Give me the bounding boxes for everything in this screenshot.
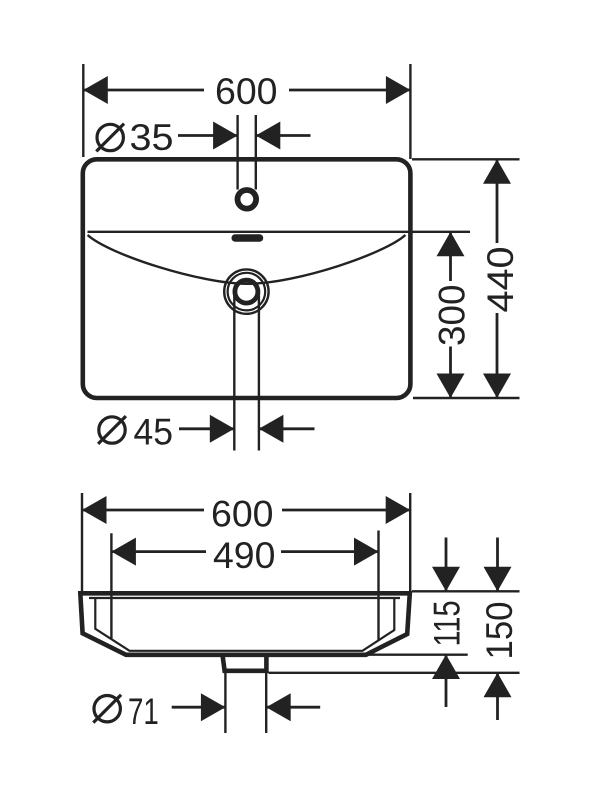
- front view: 600 dim line: [82, 509, 204, 512]
- front view: 150 bottom extension line: [269, 672, 520, 674]
- top view: faucet hole right extension line: [255, 115, 257, 190]
- svg-text:35: 35: [130, 117, 174, 158]
- front view: 600 left arrow: [82, 496, 107, 524]
- front view: 490 dim right extension line: [377, 531, 379, 641]
- svg-text:600: 600: [211, 494, 274, 535]
- front view: 150 top arrow pointing down: [484, 567, 512, 592]
- front view: 600 dim right extension line: [409, 493, 411, 591]
- top view: drain middle circle: [228, 273, 266, 311]
- top view: bottom extension line to the right: [413, 397, 520, 399]
- front view: 600 right arrow: [386, 496, 411, 524]
- top view: basin outer outline rounded rectangle: [83, 159, 411, 398]
- front view: 600 dim left extension line: [81, 493, 83, 592]
- front view: 150 dim line upper: [496, 538, 499, 592]
- top view: inner bowl curve: [88, 235, 406, 284]
- front view: 115 dim line lower: [445, 655, 448, 708]
- front view: dia71 dim line right segment: [266, 706, 320, 709]
- top view: drain outer circle: [224, 269, 268, 313]
- top view: dia35 right arrow pointing left: [256, 122, 280, 150]
- top view: dia45 left arrow: [210, 415, 235, 443]
- front view: dia71 dim line left segment: [172, 706, 226, 709]
- top view: diameter 35 label: [97, 124, 123, 150]
- top view: 600 dimension line: [83, 89, 204, 92]
- top view: overflow slot: [232, 234, 264, 241]
- svg-text:440: 440: [480, 247, 521, 313]
- front view: 490 dim left extension line: [110, 533, 112, 639]
- front view: 150 dim line lower: [496, 673, 499, 720]
- top view: 300 dim bottom arrow: [437, 374, 465, 399]
- svg-text:71: 71: [128, 691, 159, 732]
- front view: 490 right arrow: [354, 538, 379, 566]
- top view: faucet hole: [238, 190, 257, 209]
- top view: dia35 left arrow pointing right: [213, 122, 238, 150]
- top view: drain left extension line down to dia45 dim: [233, 292, 235, 451]
- top view: 600 dimension right arrow: [386, 76, 411, 104]
- svg-text:150: 150: [479, 602, 520, 660]
- svg-text:600: 600: [215, 71, 278, 112]
- front view: 115 dim line upper: [445, 538, 448, 592]
- top view: 600 dimension right extension line: [409, 64, 411, 159]
- top view: 300 dimension extension from rim handled above; 300 dim line: [449, 232, 452, 281]
- svg-text:300: 300: [432, 285, 473, 347]
- svg-text:45: 45: [134, 412, 174, 453]
- top view: 300 dim top arrow: [437, 232, 465, 256]
- top view: dia45 right arrow: [259, 415, 284, 443]
- top view: 440 dim bottom arrow: [483, 374, 511, 399]
- top view: drain inner thick ring: [235, 280, 258, 303]
- front view: 490 left arrow: [111, 538, 135, 566]
- top view: dia35 dimension line left segment: [178, 134, 238, 137]
- front view: 115 bottom arrow pointing up: [432, 655, 460, 680]
- front view: 150 bottom arrow pointing up: [484, 673, 512, 698]
- front view: dia71 right arrow: [266, 693, 291, 721]
- front view: drain pipe left line: [224, 673, 226, 733]
- top view: top extension line to the right: [412, 158, 520, 160]
- front view: dia71 label: [94, 696, 120, 722]
- front view: dia71 left arrow: [201, 693, 226, 721]
- top view: 600 dimension left arrow: [83, 76, 108, 104]
- front view: top extension line to the right: [412, 590, 520, 592]
- front view: basin profile inner thin outline: [89, 598, 400, 651]
- front view: 115 bottom extension line: [368, 654, 468, 656]
- top view: 440 dim top arrow: [483, 159, 511, 184]
- top view: dia45 label: [99, 417, 125, 443]
- top view: inner rim line with 300 extension: [88, 231, 471, 233]
- front view: drain pipe right line: [265, 673, 267, 733]
- top view: dia35 dimension line right segment: [256, 134, 311, 137]
- top view: faucet hole left extension line: [236, 115, 238, 190]
- top view: dia45 dim line left segment: [179, 427, 234, 430]
- top view: drain right extension line down to dia45 dim: [258, 292, 260, 451]
- svg-text:115: 115: [427, 601, 468, 647]
- svg-text:490: 490: [213, 535, 275, 576]
- top view: dia45 dim line right segment: [259, 427, 315, 430]
- top view: 440 dim line: [496, 159, 499, 243]
- front view: drain flange below bottom edge: [223, 655, 267, 671]
- top view: 600 dimension left extension line: [82, 64, 84, 157]
- front view: 490 dim line: [111, 550, 206, 553]
- front view: basin profile outer outline: [80, 593, 410, 655]
- front view: 115 top arrow pointing down: [432, 567, 460, 592]
